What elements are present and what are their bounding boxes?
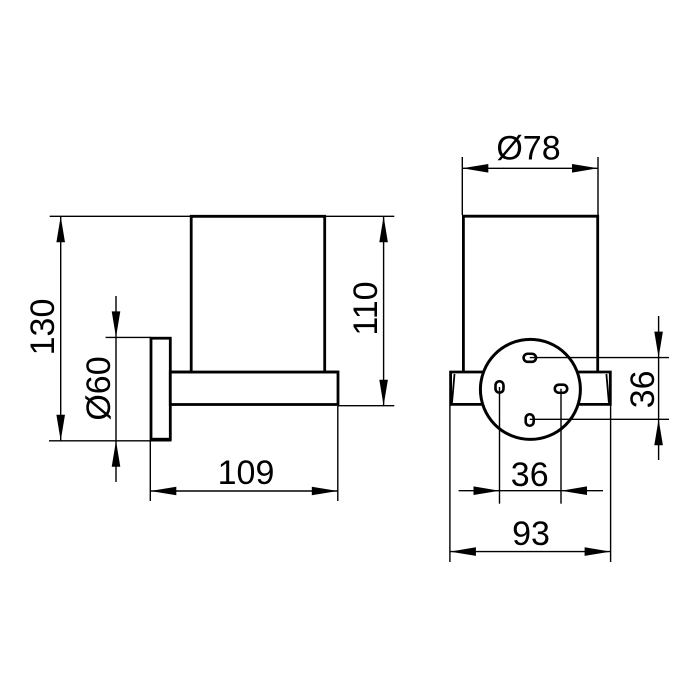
svg-text:Ø78: Ø78: [496, 130, 560, 168]
label 36 bottom: [511, 456, 549, 494]
label 109: [218, 454, 275, 492]
dim O78 extension lines: [462, 157, 598, 215]
dim O60 line with outside arrows: [112, 296, 121, 482]
dim 110 bottom extension line: [338, 405, 394, 407]
leader from top slot: [530, 357, 669, 359]
dim 110 line: [379, 216, 388, 405]
dim 93 line: [450, 547, 611, 556]
dim 109 extension lines: [150, 406, 337, 501]
label 36 right: [624, 370, 662, 408]
dim O60 top extension line: [106, 336, 151, 338]
dim O78 line: [462, 164, 598, 173]
dim 36 bottom line with outside arrows: [459, 486, 603, 495]
extension line top (cup top, spans 130 and 110 dims): [50, 215, 395, 217]
label 110: [347, 281, 385, 335]
dim 109 line: [150, 487, 337, 496]
svg-text:109: 109: [218, 454, 275, 492]
label O60: [80, 356, 118, 420]
leader from left slot: [499, 387, 501, 504]
label O78: [496, 130, 560, 168]
svg-text:93: 93: [512, 515, 550, 553]
dim 130 line: [56, 216, 65, 440]
glass cup (side view, open bottom): [191, 216, 325, 372]
screw slot right: [555, 385, 567, 393]
svg-text:130: 130: [24, 299, 62, 356]
dim 93 extension lines: [450, 406, 611, 563]
dim 36 right line with outside arrows: [654, 316, 663, 460]
leader from bottom slot: [530, 418, 669, 420]
dim 130 bottom extension line: [49, 440, 172, 442]
arm top edge redraw over cup: [170, 371, 338, 374]
svg-text:36: 36: [624, 370, 662, 408]
label 93: [512, 515, 550, 553]
glass cup (front view, open bottom): [463, 216, 597, 372]
svg-text:36: 36: [511, 456, 549, 494]
leader from right slot: [560, 389, 562, 504]
screw slot top: [524, 354, 536, 362]
holder bracket (front view): [451, 372, 611, 404]
svg-text:110: 110: [347, 281, 385, 335]
svg-text:Ø60: Ø60: [80, 356, 118, 420]
wall plate circle (front view): [480, 339, 580, 439]
wall plate (side view): [151, 338, 170, 439]
screw slot bottom: [526, 414, 534, 426]
screw slot left: [496, 381, 504, 393]
holder arm (side view): [170, 372, 338, 405]
label 130: [24, 299, 62, 356]
